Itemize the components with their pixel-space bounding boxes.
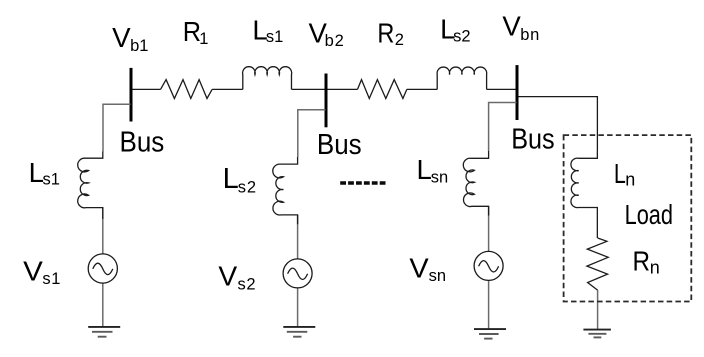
svg-text:V: V xyxy=(502,11,521,42)
svg-text:V: V xyxy=(23,255,43,286)
svg-text:s1: s1 xyxy=(266,28,283,46)
svg-text:s2: s2 xyxy=(238,276,257,294)
svg-text:sn: sn xyxy=(431,169,448,187)
svg-text:L: L xyxy=(223,163,239,195)
svg-text:L: L xyxy=(417,154,432,185)
svg-text:s2: s2 xyxy=(453,28,470,46)
svg-text:b1: b1 xyxy=(130,37,148,55)
svg-text:n: n xyxy=(650,258,660,278)
svg-text:Bus: Bus xyxy=(317,129,362,161)
svg-text:Load: Load xyxy=(625,199,673,230)
svg-text:1: 1 xyxy=(199,30,208,48)
svg-text:V: V xyxy=(409,253,429,284)
svg-text:s1: s1 xyxy=(42,270,61,288)
svg-text:sn: sn xyxy=(429,267,446,285)
svg-text:bn: bn xyxy=(520,26,540,44)
svg-text:L: L xyxy=(614,159,626,189)
svg-text:Bus: Bus xyxy=(120,127,165,159)
svg-text:b2: b2 xyxy=(325,32,345,50)
svg-text:s2: s2 xyxy=(238,178,257,196)
svg-text:2: 2 xyxy=(395,31,404,49)
svg-text:s1: s1 xyxy=(43,171,60,189)
svg-text:R: R xyxy=(377,17,394,48)
svg-text:Bus: Bus xyxy=(511,124,555,156)
svg-text:V: V xyxy=(218,261,237,292)
svg-text:V: V xyxy=(112,22,131,53)
svg-text:R: R xyxy=(633,245,651,277)
svg-text:n: n xyxy=(625,170,635,190)
